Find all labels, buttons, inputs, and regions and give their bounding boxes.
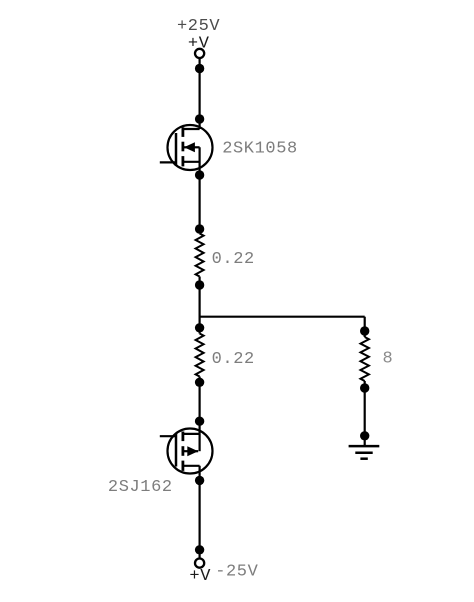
Q1 gate bar xyxy=(175,133,178,166)
Q2 gate lead (left stub) xyxy=(160,435,176,437)
junction dot above bottom terminal xyxy=(195,545,204,554)
wire: R2 down to Q2 source xyxy=(199,377,201,434)
wire: R1 to output junction to R2 xyxy=(199,277,201,334)
node dot R2 top xyxy=(195,323,204,332)
junction dot at ground xyxy=(360,431,369,440)
svg-text:+V: +V xyxy=(189,567,211,586)
terminal +V bottom (open circle) xyxy=(195,559,204,568)
Q1 channel bar middle segment xyxy=(181,142,184,152)
wire: Q2 drain to bottom terminal xyxy=(199,466,201,559)
wire: R3 to ground xyxy=(364,381,366,446)
Q2 drain horizontal lead xyxy=(183,465,200,467)
wire: output node horizontal to load xyxy=(200,316,365,318)
Q2 channel bar bottom segment xyxy=(181,461,184,471)
label 0.22 (R1 value) xyxy=(212,250,255,269)
Q2 body arrow (points right, P-channel) xyxy=(187,446,198,456)
Q1 source horizontal lead xyxy=(183,161,200,163)
svg-text:8: 8 xyxy=(383,350,394,369)
Q1 channel bar bottom segment xyxy=(181,156,184,166)
wire: output junction down right branch to R3 xyxy=(364,317,366,337)
junction dot at Q1 drain xyxy=(195,114,204,123)
label 2SJ162 xyxy=(108,478,173,497)
junction dot above Q2 xyxy=(195,417,204,426)
junction dot at Q1 source xyxy=(195,170,204,179)
Q1 body connection line xyxy=(184,146,200,148)
svg-text:2SK1058: 2SK1058 xyxy=(222,139,298,158)
ground bar 3 xyxy=(360,457,367,460)
wire: Q1 source down to resistor R1 xyxy=(199,147,201,233)
svg-text:-25V: -25V xyxy=(215,563,258,582)
Q1 gate lead (left stub) xyxy=(160,161,176,163)
Q2 body connection line xyxy=(183,450,199,452)
node dot R3 bottom xyxy=(360,383,369,392)
junction dot below top terminal xyxy=(195,64,204,73)
transistor Q2 2SJ162 (P-channel MOSFET) body circle xyxy=(168,429,213,474)
node dot R1 top xyxy=(195,224,204,233)
label -25V supply xyxy=(215,563,258,582)
Q1 drain horizontal lead xyxy=(183,128,200,130)
Q2 channel bar top segment xyxy=(181,432,184,442)
label 8 (R3 value) xyxy=(383,350,394,369)
svg-text:+25V: +25V xyxy=(177,17,220,36)
Q2 source horizontal lead xyxy=(183,433,200,435)
resistor R3 8 ohm zigzag xyxy=(361,337,369,381)
transistor Q1 2SK1058 (N-channel MOSFET) body circle xyxy=(168,125,213,170)
Q2 source vertical to body arrow xyxy=(199,434,201,451)
Q1 channel bar top segment xyxy=(181,127,184,137)
svg-text:0.22: 0.22 xyxy=(212,250,255,269)
Q2 channel bar middle segment xyxy=(181,446,184,456)
Q1 body arrow (points left, N-channel) xyxy=(184,142,195,152)
label 2SK1058 xyxy=(222,139,298,158)
label 0.22 (R2 value) xyxy=(212,350,255,369)
resistor R2 0.22 zigzag xyxy=(196,334,204,377)
label +V (bottom) xyxy=(189,567,211,586)
junction dot at Q2 drain xyxy=(195,476,204,485)
ground bar 2 xyxy=(355,452,372,455)
svg-text:0.22: 0.22 xyxy=(212,350,255,369)
label +V (top) xyxy=(188,35,210,54)
node dot R1 bottom xyxy=(195,280,204,289)
svg-text:2SJ162: 2SJ162 xyxy=(108,478,173,497)
node dot R2 bottom xyxy=(195,378,204,387)
terminal +V top (open circle) xyxy=(195,49,204,58)
Q2 gate bar xyxy=(175,434,178,467)
wire: top terminal to Q1 drain xyxy=(199,58,201,129)
ground bar 1 xyxy=(349,445,380,448)
label +25V supply xyxy=(177,17,220,36)
resistor R1 0.22 zigzag xyxy=(196,234,204,277)
node dot R3 top xyxy=(360,326,369,335)
